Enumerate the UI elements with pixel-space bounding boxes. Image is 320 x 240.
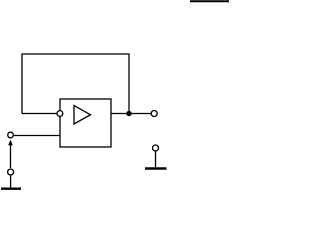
wire feedback to inverting input bubble	[22, 113, 57, 115]
terminal output (open circle)	[151, 111, 157, 117]
op-amp U1 body	[60, 99, 111, 147]
ground right bar	[145, 167, 167, 169]
wire top-right cropped segment	[190, 0, 229, 2]
ground left bar	[1, 187, 21, 189]
wire stem to right ground	[155, 151, 157, 168]
arrow source pointer	[8, 140, 13, 168]
terminal right floating (open circle)	[153, 145, 159, 151]
wire stem to left ground	[10, 175, 12, 188]
junction output node dot	[126, 111, 131, 116]
inverting input bubble on U1	[57, 111, 63, 117]
wire feedback top horizontal	[21, 53, 129, 55]
wire feedback right vertical	[128, 54, 130, 114]
terminal lower-left (open circle)	[8, 169, 14, 175]
wire feedback left vertical	[21, 54, 23, 114]
terminal input (open circle)	[8, 132, 14, 138]
wire output	[111, 113, 151, 115]
wire non-inverting input	[13, 135, 60, 137]
